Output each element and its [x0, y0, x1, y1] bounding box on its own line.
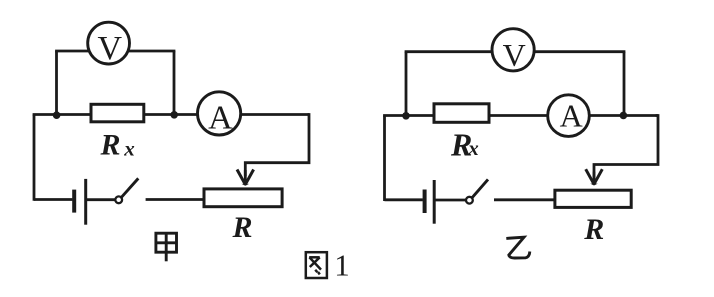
label Rx (乙): [450, 126, 479, 162]
wire: 甲 left outer vertical: [33, 115, 36, 201]
svg-text:1: 1: [334, 247, 350, 282]
svg-text:R: R: [583, 213, 604, 246]
wire: 甲 battery to switch: [87, 198, 115, 201]
svg-text:R: R: [100, 128, 121, 161]
svg-text:A: A: [560, 97, 583, 133]
wire: 乙 switch to rheostat: [494, 198, 554, 201]
label 图1: [306, 247, 350, 282]
wire: 乙 battery to switch: [436, 199, 467, 202]
junction dot (乙 left, voltmeter tap): [402, 112, 410, 120]
svg-text:x: x: [123, 137, 135, 161]
ammeter A (乙): [548, 95, 590, 137]
svg-text:A: A: [208, 99, 233, 136]
rheostat R (甲): [204, 189, 282, 207]
battery cell (甲): [74, 179, 86, 225]
rheostat slider arrow (甲): [237, 170, 254, 186]
wire: 甲 voltmeter branch top: [55, 50, 175, 53]
voltmeter V (甲): [88, 22, 130, 67]
voltmeter V (乙): [492, 29, 534, 73]
svg-text:x: x: [467, 136, 479, 160]
wire: 乙 ammeter junction to rheostat slider: [594, 116, 658, 178]
wire: 乙 voltmeter branch top: [405, 50, 626, 53]
rheostat slider arrow (乙): [586, 169, 603, 185]
svg-text:V: V: [503, 37, 526, 73]
wire: 乙 bottom from battery to left outer: [385, 198, 423, 201]
svg-text:V: V: [98, 30, 123, 67]
resistor Rx (乙): [434, 104, 489, 123]
junction dot (甲 left, voltmeter tap): [53, 111, 61, 119]
wire: 乙 main horizontal: [383, 114, 658, 117]
wire: 乙 voltmeter branch right vertical: [623, 52, 626, 116]
switch S (甲): [115, 178, 138, 203]
resistor Rx (甲): [91, 104, 144, 122]
battery cell (乙): [425, 180, 435, 224]
svg-text:R: R: [232, 211, 253, 244]
wire: 甲 switch to rheostat: [146, 198, 203, 201]
label 甲: [156, 233, 177, 261]
rheostat R (乙): [555, 190, 631, 207]
wire: 乙 voltmeter branch left vertical: [405, 52, 408, 116]
wire: 甲 ammeter to rheostat slider: [245, 115, 309, 177]
wire: 甲 bottom from battery to left outer: [34, 198, 72, 201]
wire: 乙 left outer vertical: [383, 116, 386, 202]
junction dot (乙 right, voltmeter tap): [620, 112, 628, 120]
label 乙: [506, 237, 530, 258]
label Rx (甲): [100, 128, 135, 161]
wire: 甲 voltmeter branch right vertical: [173, 51, 176, 115]
switch S (乙): [466, 179, 488, 203]
junction dot (甲 right, voltmeter tap): [170, 111, 178, 119]
wire: 甲 voltmeter branch left vertical: [55, 51, 58, 115]
wire: 甲 main horizontal: [33, 113, 309, 116]
ammeter A (甲): [198, 92, 241, 137]
